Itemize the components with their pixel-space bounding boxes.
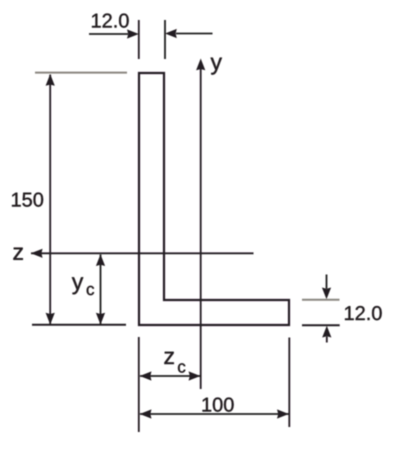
yc dim bottom arrow [96,313,105,325]
150 dim bottom arrow [46,313,55,325]
gray extension line right top (12.0 dim) [302,299,340,301]
L-section outline [139,73,289,325]
100 dim line [140,413,289,415]
gray extension line top-left (150 dim) [35,72,127,74]
zc dim left arrow [140,371,152,380]
yc dim top arrow [96,254,105,266]
top 12.0 dim line right part [176,33,213,35]
150 dim line [49,75,51,325]
z axis arrowhead [31,249,43,258]
right 12.0 up arrowhead [322,326,331,338]
100 dim left arrow [140,409,152,418]
extension line bottom-left (150 / yc dim) [32,324,126,326]
zc dim right arrow [189,371,201,380]
label zc (c subscript) [178,363,185,372]
extension line bottom left (100 dim) [138,337,140,432]
extension line right of top 12.0 dim [164,20,166,59]
label yc (c subscript) [87,286,94,295]
y axis arrowhead [196,59,205,71]
right 12.0 down arrowhead [322,288,331,300]
label z axis [13,248,22,260]
label yc (y) [72,277,83,294]
label 12.0 right [345,306,382,320]
label 12.0 top [92,14,129,28]
top 12.0 dim right arrow [165,29,177,38]
yc dim line [100,255,102,325]
label 150 [12,193,43,207]
zc dim line [140,375,200,377]
150 dim top arrow [46,74,55,86]
top 12.0 dim line left part [89,33,128,35]
100 dim right arrow [277,409,289,418]
extension line left of top 12.0 dim [138,20,140,59]
label 100 [203,398,234,412]
extension line bottom right (100 dim) [288,338,290,428]
y axis line [200,69,202,389]
label zc (z) [164,352,173,364]
extension line right bottom (12.0 dim) [302,324,340,326]
right 12.0 up arrow line [326,337,328,343]
right 12.0 down arrow line [326,275,328,289]
z axis line [31,252,254,254]
top 12.0 dim left arrow [127,29,139,38]
label y axis [211,58,222,75]
